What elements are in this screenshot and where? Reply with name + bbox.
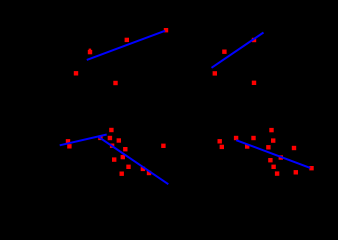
point P3g bbox=[110, 144, 114, 148]
point P4k bbox=[292, 146, 296, 150]
point P3l bbox=[126, 165, 130, 169]
point P3k bbox=[120, 172, 124, 176]
point P4o bbox=[309, 166, 313, 170]
point P4l bbox=[294, 170, 298, 174]
point P3n bbox=[147, 171, 151, 175]
fit line L1 (top-left) bbox=[87, 31, 165, 60]
point P3d bbox=[109, 128, 113, 132]
point P3f bbox=[117, 138, 121, 142]
panel 4 (bottom-right) data points bbox=[218, 128, 314, 176]
point P4f bbox=[269, 128, 273, 132]
point P4a bbox=[218, 139, 222, 143]
point P3c bbox=[98, 136, 102, 140]
point P4n bbox=[271, 165, 275, 169]
point P3m bbox=[141, 167, 145, 171]
point P1e bbox=[164, 28, 168, 32]
point P3j bbox=[112, 157, 116, 161]
point P1b bbox=[74, 71, 78, 75]
fit line L2 (top-right) bbox=[212, 33, 264, 68]
point P4j bbox=[279, 155, 283, 159]
point P1c bbox=[125, 38, 129, 42]
point P2c bbox=[252, 38, 256, 42]
point P1d bbox=[113, 81, 117, 85]
point P2a bbox=[213, 71, 217, 75]
point P4b bbox=[220, 145, 224, 149]
panel 2 (top-right) data points bbox=[213, 38, 257, 85]
point P3i bbox=[121, 155, 125, 159]
fit line L4 (bottom-left steep) bbox=[98, 136, 169, 184]
point P2d bbox=[252, 81, 256, 85]
point P4h bbox=[266, 145, 270, 149]
point P4i bbox=[268, 158, 272, 162]
point P4e bbox=[245, 144, 249, 148]
point P1a bbox=[88, 50, 92, 54]
panel 3 (bottom-left) data points bbox=[66, 128, 166, 176]
point P3h bbox=[123, 147, 127, 151]
fit line L3 (bottom-left shallow) bbox=[60, 135, 107, 146]
point P4c bbox=[234, 136, 238, 140]
point P3b bbox=[67, 144, 71, 148]
point P2b bbox=[222, 50, 226, 54]
point P3a bbox=[66, 139, 70, 143]
point P4g bbox=[271, 138, 275, 142]
point P4m bbox=[275, 171, 279, 175]
panel 1 (top-left) data points bbox=[74, 28, 168, 85]
point P3e bbox=[108, 136, 112, 140]
point P3o bbox=[161, 144, 165, 148]
point P4d bbox=[251, 136, 255, 140]
point P1a2 (overlapping) bbox=[89, 49, 91, 51]
fit line L5 (bottom-right) bbox=[236, 140, 310, 168]
